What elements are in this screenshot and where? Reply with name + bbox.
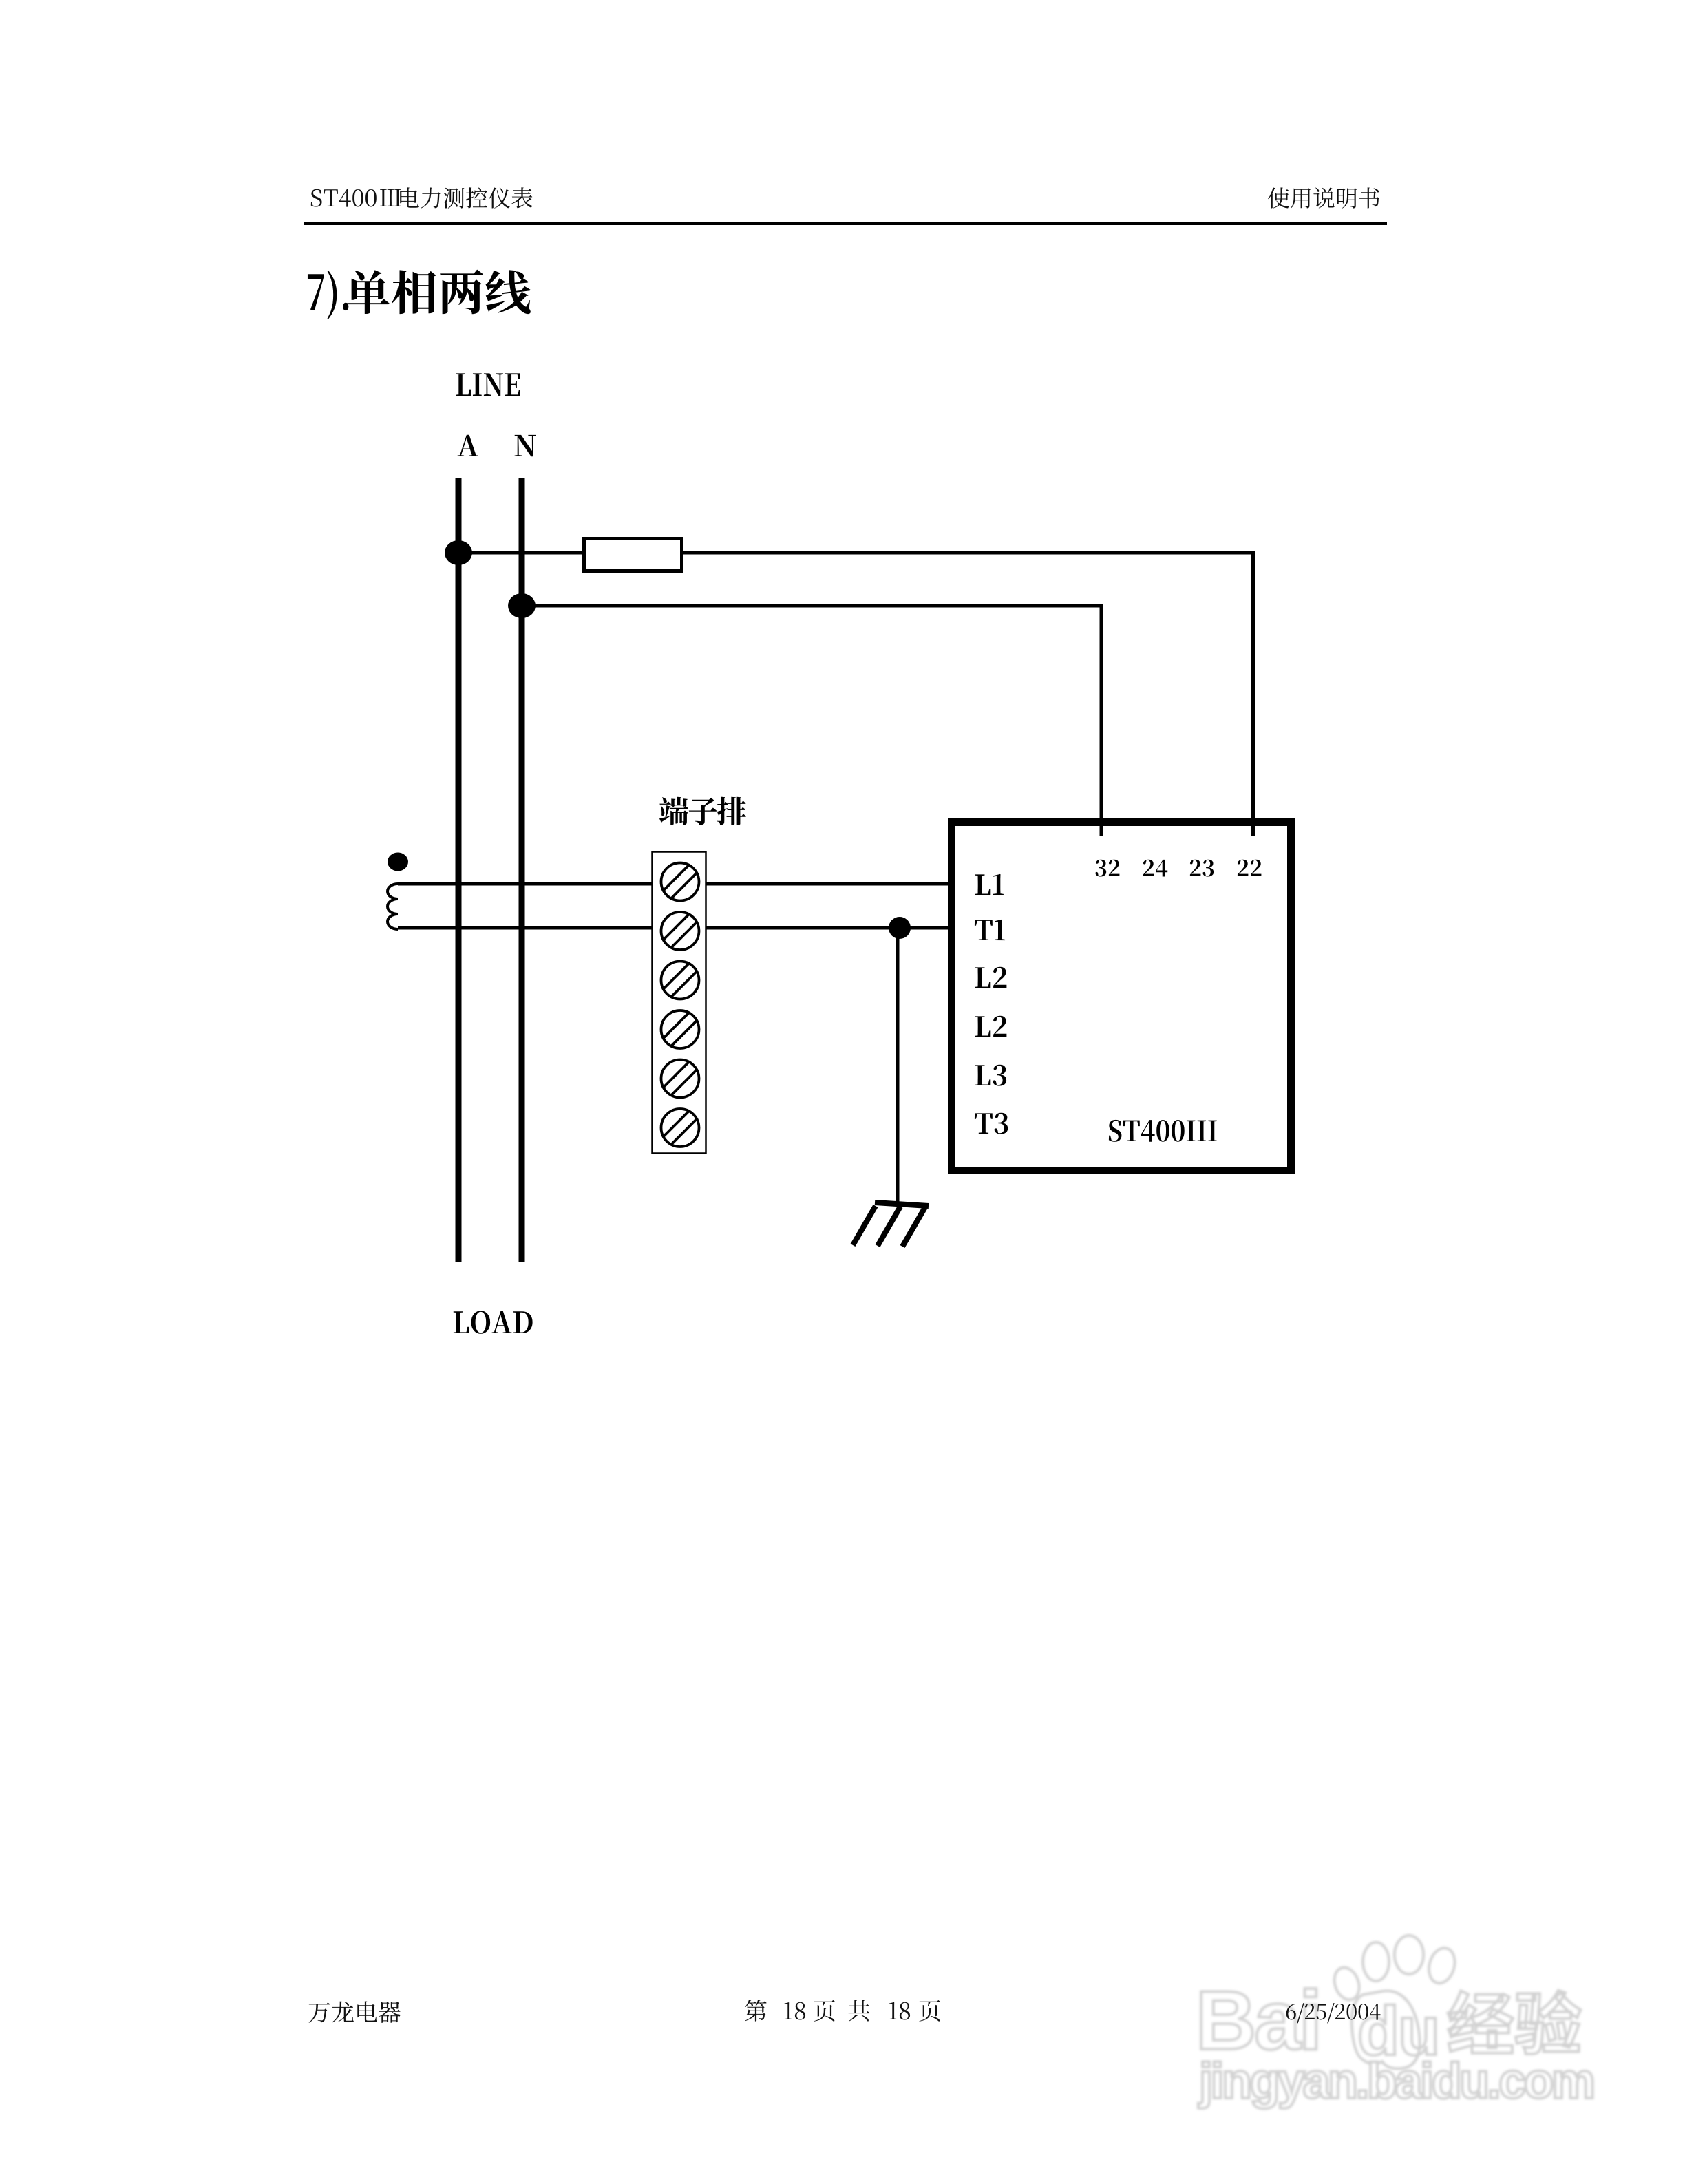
wire A-node to fuse [458, 551, 582, 555]
svg-text:Bai: Bai [1196, 1973, 1320, 2067]
label LOAD [454, 1311, 533, 1334]
terminal screw 5 [661, 1060, 699, 1098]
label LINE [456, 373, 520, 396]
footer company 万龙电器 [309, 2001, 401, 2023]
terminal screw 3 [661, 962, 699, 999]
ground symbol [853, 1202, 929, 1247]
fuse/resistor box [584, 539, 682, 571]
wire CT to L1 [398, 882, 951, 886]
terminal block body [653, 852, 706, 1154]
terminal screw 1 [661, 863, 699, 901]
svg-text:jingyan.baidu.com: jingyan.baidu.com [1198, 2054, 1593, 2109]
header-right text [1268, 187, 1379, 208]
label 端子排 terminal block [659, 797, 746, 825]
pin label L2 #4 [975, 1016, 1007, 1037]
wire CT to T1 [398, 926, 951, 930]
junction node on N [508, 593, 536, 618]
wire neutral N vertical [519, 478, 525, 1262]
section title numeral 7). [308, 270, 348, 319]
CT polarity dot [388, 853, 408, 871]
junction node T1 [889, 917, 911, 939]
wire fuse to pin 22 drop [682, 553, 1253, 836]
pin number 24 [1143, 860, 1167, 877]
junction node on A [445, 540, 472, 565]
pin number 23 [1190, 860, 1214, 877]
label neutral N [515, 435, 536, 456]
terminal screw 2 [661, 912, 699, 950]
label ST400III [1109, 1120, 1217, 1142]
pin label T3 #6 [975, 1113, 1008, 1134]
header rule [304, 222, 1387, 225]
pin label L2 #3 [975, 967, 1007, 988]
wire N-node to pin 32 drop [522, 606, 1101, 836]
wire phase A vertical [456, 478, 462, 1262]
pin label T1 #2 [975, 920, 1005, 940]
pin label L3 #5 [975, 1065, 1006, 1086]
wire T1 to ground [896, 928, 900, 1202]
pin number 32 [1095, 860, 1119, 877]
header-left title text [311, 187, 533, 209]
section title 单相两线 [346, 270, 531, 315]
pin number 22 [1238, 860, 1262, 876]
label phase A [458, 435, 478, 456]
Baidu Jingyan watermark [1196, 1936, 1593, 2109]
pin label L1 #1 [975, 874, 1004, 895]
footer page number [745, 2000, 940, 2021]
terminal screw 6 [661, 1109, 699, 1147]
terminal screw 4 [661, 1010, 699, 1048]
meter box ST400III [952, 823, 1291, 1171]
CT coil winding [388, 884, 398, 929]
footer date [1286, 2003, 1381, 2023]
